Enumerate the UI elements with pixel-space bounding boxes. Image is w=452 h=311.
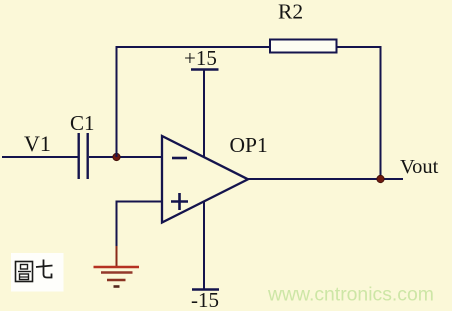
svg-text:-15: -15 (191, 288, 219, 311)
svg-text:OP1: OP1 (230, 133, 268, 157)
wire feedback top right (337, 46, 382, 48)
op-amp U1 OP1 triangle (162, 136, 248, 223)
wire input V1 to C1 (2, 156, 78, 158)
wire feedback vertical left (116, 46, 118, 157)
svg-text:V1: V1 (24, 131, 51, 156)
wire C1 to op-amp inverting input (89, 156, 162, 158)
node A junction dot at C1 output (113, 153, 120, 160)
figure label character qi (seven) (36, 260, 53, 278)
op-amp non-inverting input plus sign (171, 193, 188, 210)
figure label character tu (picture) (16, 262, 33, 282)
resistor R2 (270, 40, 337, 53)
svg-text:C1: C1 (70, 111, 95, 135)
power +15 symbol (191, 70, 219, 158)
svg-text:R2: R2 (278, 0, 303, 23)
ground (94, 267, 140, 287)
wire feedback vertical right (380, 46, 382, 179)
wire non-inverting input (117, 201, 163, 203)
svg-text:Vout: Vout (400, 156, 439, 178)
svg-text:www.cntronics.com: www.cntronics.com (267, 284, 434, 306)
svg-text:+15: +15 (184, 46, 217, 70)
power -15 symbol (192, 201, 219, 290)
wire to ground (116, 201, 118, 267)
figure label white box (11, 253, 64, 292)
op-amp inverting input minus sign (172, 157, 187, 160)
node Vout junction dot (377, 175, 384, 182)
capacitor C1 (79, 133, 88, 179)
wire output (248, 178, 403, 180)
wire feedback top left (116, 46, 271, 48)
